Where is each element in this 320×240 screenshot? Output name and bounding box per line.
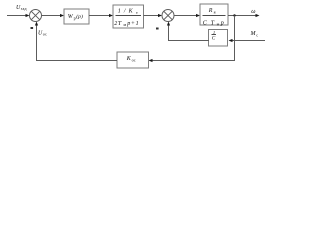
node: arrowhead into summator 1 (26, 14, 30, 17)
wire: Mc input line (232, 40, 266, 42)
wire: S2 to motor block (174, 15, 197, 17)
wire: input line Uzad (7, 15, 27, 17)
block W_p(p) regulator (64, 9, 89, 24)
summing junction S1 (30, 10, 42, 22)
wire: omega feedback down and to Koc (152, 16, 235, 61)
block 1/C (209, 30, 228, 47)
svg-text:p: p (220, 20, 224, 26)
wire: S1 to regulator block (42, 15, 62, 17)
wire: Koc output to S1 bottom (37, 25, 118, 61)
node: junction dot on omega line (233, 14, 235, 16)
block Koc (speed feedback) (117, 52, 149, 68)
wire: motor block to output omega (228, 15, 256, 17)
svg-text:ос: ос (43, 32, 47, 37)
svg-text:зад: зад (21, 6, 27, 11)
wire: regulator to converter block (89, 15, 110, 17)
minus sign at S1 feedback input (31, 27, 34, 29)
svg-text:м: м (217, 22, 220, 27)
svg-text:R: R (208, 8, 213, 14)
summing junction S2 (162, 10, 174, 22)
svg-text:т: т (136, 10, 138, 15)
wire: block to summator 2 (144, 15, 160, 17)
svg-text:я: я (214, 9, 216, 14)
svg-text:м: м (124, 22, 127, 27)
svg-text:C: C (212, 35, 216, 41)
svg-text:C T: C T (203, 20, 215, 26)
svg-text:1 / K: 1 / K (118, 9, 134, 15)
svg-text:ω: ω (251, 9, 255, 15)
minus sign at S2 lower input (156, 28, 159, 30)
wire: 1/C output to S2 bottom (169, 25, 210, 41)
block Rya over C Tm p (mechanical link) (200, 4, 228, 25)
svg-text:с: с (256, 32, 258, 37)
svg-text:ос: ос (132, 57, 136, 62)
svg-text:2T: 2T (114, 21, 122, 27)
block 1/Kt over 2Tmp+1 (current loop) (113, 5, 144, 28)
svg-text:(р): (р) (76, 13, 83, 20)
svg-text:p+1: p+1 (126, 21, 139, 27)
